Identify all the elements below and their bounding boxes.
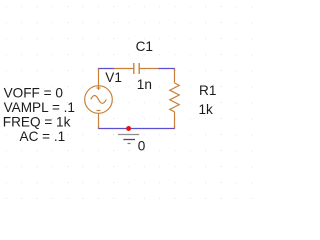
svg-text:AC = .1: AC = .1 [20, 129, 66, 144]
pin top [174, 69, 176, 84]
svg-text:C1: C1 [136, 39, 153, 54]
svg-text:VOFF = 0: VOFF = 0 [4, 86, 64, 101]
wire bottom horizontal [99, 126, 175, 129]
resistor R1 [170, 69, 179, 129]
pin left [114, 68, 133, 70]
minus mark [97, 110, 101, 112]
sine wave [91, 96, 107, 104]
svg-text:R1: R1 [199, 83, 216, 98]
pin right [140, 68, 159, 70]
plate left [133, 63, 135, 74]
capacitor C1 [114, 63, 158, 74]
voltage source V1 [85, 69, 113, 129]
plus mark [97, 87, 101, 89]
svg-text:FREQ = 1k: FREQ = 1k [3, 115, 71, 130]
svg-text:0: 0 [138, 139, 146, 154]
body circle [85, 86, 113, 114]
svg-text:V1: V1 [105, 70, 122, 85]
svg-text:VAMPL = .1: VAMPL = .1 [4, 100, 75, 115]
pin top [98, 69, 100, 86]
plate right [138, 63, 140, 74]
svg-text:1k: 1k [199, 102, 214, 117]
pin bottom [98, 113, 100, 128]
ground 0 [118, 135, 139, 144]
zigzag body [170, 83, 179, 112]
pin bottom [174, 112, 176, 129]
junction dot [126, 126, 131, 131]
wire top-left horizontal segment [99, 69, 115, 71]
grid background [0, 0, 253, 199]
svg-text:1n: 1n [137, 77, 152, 92]
wire top-right horizontal segment [158, 69, 175, 72]
